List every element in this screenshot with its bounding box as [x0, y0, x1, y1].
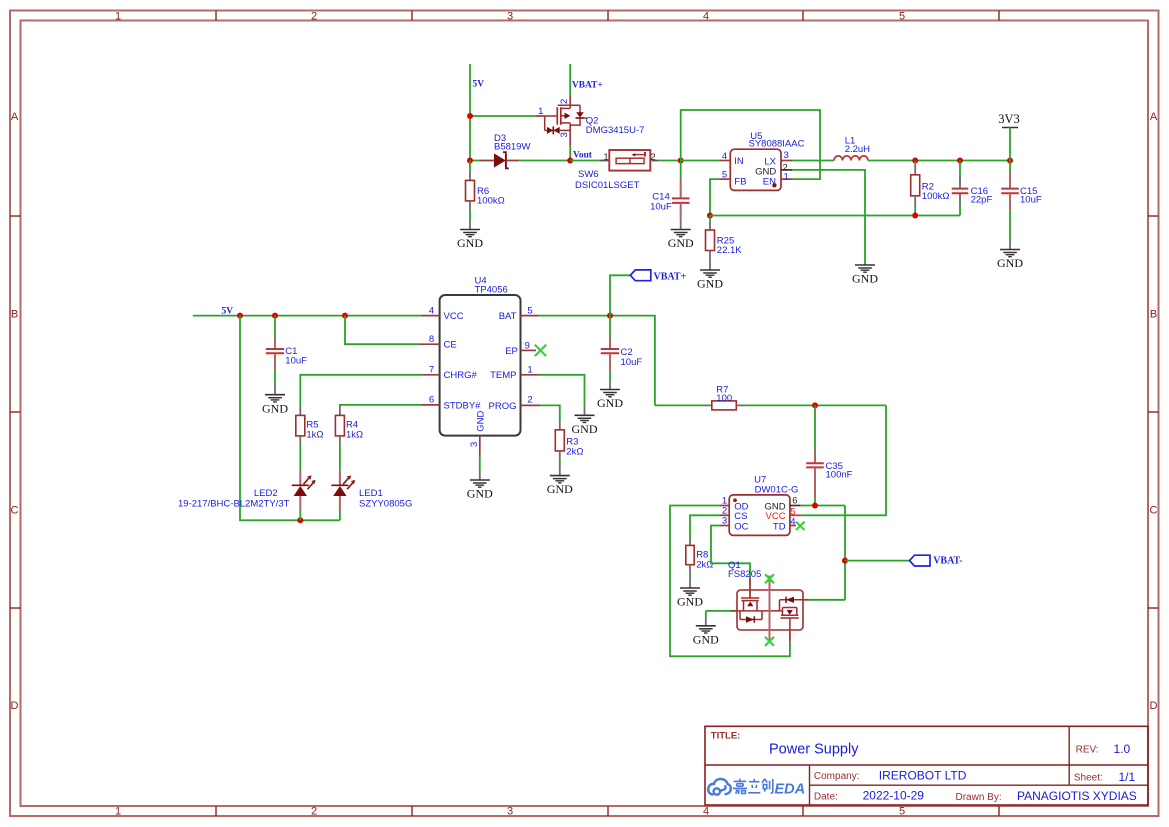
wire VBAT+ vertical [569, 64, 571, 95]
resistor R2 [914, 161, 916, 165]
capacitor C2 [609, 316, 611, 337]
node LED rail junction [237, 313, 243, 319]
node 5V/gate junction [467, 113, 473, 119]
no-connect Q1 top [765, 574, 774, 583]
node C1 junction [272, 313, 278, 319]
svg-text:2: 2 [650, 152, 655, 163]
wire C35 bottom [814, 497, 816, 506]
svg-text:2.2uH: 2.2uH [845, 144, 870, 155]
svg-text:8: 8 [429, 334, 434, 345]
svg-text:1: 1 [538, 106, 543, 117]
wire Q1 left source [706, 610, 731, 612]
svg-text:10uF: 10uF [1020, 195, 1042, 206]
svg-text:DSIC01LSGET: DSIC01LSGET [575, 180, 640, 191]
svg-text:C: C [11, 505, 19, 517]
svg-text:Power Supply: Power Supply [769, 742, 859, 758]
svg-text:EP: EP [505, 346, 518, 357]
svg-text:SZYY0805G: SZYY0805G [359, 499, 412, 510]
wire PROG [540, 405, 560, 420]
svg-text:GND: GND [467, 487, 493, 501]
svg-text:A: A [11, 111, 19, 123]
svg-text:3: 3 [507, 11, 513, 23]
wire CHRG# [300, 375, 421, 407]
net flag VBAT- [910, 555, 931, 566]
op-amp U7 DW01C-G [720, 495, 801, 536]
wire R6 top [469, 161, 471, 171]
node FB/R25 junction [707, 213, 713, 219]
net flag VBAT+ [630, 270, 651, 281]
wire CS [690, 515, 720, 539]
wire VBAT+ flag stub [610, 275, 630, 315]
wire C15 bottom [1009, 210, 1011, 242]
svg-text:D: D [11, 700, 19, 712]
svg-text:3: 3 [722, 515, 727, 526]
svg-text:100kΩ: 100kΩ [922, 191, 950, 202]
node VBAT- junction [842, 558, 848, 564]
svg-text:TP4056: TP4056 [475, 285, 508, 296]
wire R3 bottom [559, 460, 561, 466]
no-connect TD [796, 522, 804, 530]
wire SW6 to node [659, 160, 681, 162]
svg-text:BAT: BAT [499, 311, 517, 322]
wire CE [345, 316, 420, 345]
svg-text:GND: GND [852, 272, 878, 286]
wire EN loop [681, 110, 820, 179]
node VBAT junction [607, 313, 613, 319]
capacitor C15 [1009, 161, 1011, 171]
node C35 bottom junction [812, 503, 818, 509]
svg-text:1kΩ: 1kΩ [306, 430, 323, 441]
svg-text:D: D [1150, 700, 1158, 712]
capacitor C1 [274, 316, 276, 337]
wire Vout to SW6 [570, 160, 599, 162]
no-connect EP [535, 345, 546, 356]
wire FB rail [710, 215, 960, 217]
svg-text:VBAT+: VBAT+ [572, 81, 603, 91]
svg-text:4: 4 [722, 151, 727, 162]
svg-text:GND: GND [997, 256, 1023, 270]
LED LED2 [292, 470, 316, 510]
wire LED return vertical [240, 316, 340, 521]
svg-text:5: 5 [722, 169, 727, 180]
svg-text:1kΩ: 1kΩ [346, 430, 363, 441]
svg-text:B: B [1150, 309, 1157, 321]
svg-text:DMG3415U-7: DMG3415U-7 [586, 125, 645, 136]
svg-text:SY8088IAAC: SY8088IAAC [749, 139, 805, 150]
wire U4 GND pin [479, 456, 481, 471]
svg-text:GND: GND [668, 236, 694, 250]
wire C16 bottom leg [959, 206, 961, 216]
svg-text:2kΩ: 2kΩ [566, 447, 583, 458]
wire LED1 bottom [339, 510, 341, 520]
svg-text:CHRG#: CHRG# [444, 370, 478, 381]
svg-text:100: 100 [716, 393, 732, 404]
wire 5V rail [193, 315, 422, 317]
wire Vout segment [519, 160, 570, 162]
transistor Q1 FS8205 [731, 576, 809, 644]
resistor R8 [689, 539, 691, 545]
svg-text:7: 7 [429, 365, 434, 376]
svg-text:10uF: 10uF [285, 356, 307, 367]
ground Q1 [705, 618, 707, 626]
wire R2 bottom [914, 208, 916, 215]
svg-text:19-217/BHC-BL2M2TY/3T: 19-217/BHC-BL2M2TY/3T [178, 499, 290, 510]
resistor R5 [299, 407, 301, 416]
svg-text:GND: GND [547, 482, 573, 496]
svg-text:1: 1 [115, 806, 121, 818]
wire OD loop [670, 506, 790, 657]
svg-text:5V: 5V [473, 80, 485, 90]
inductor L1 [834, 156, 868, 161]
svg-text:Drawn By:: Drawn By: [956, 792, 1002, 803]
svg-text:Company:: Company: [814, 771, 860, 782]
logo JLC EDA [708, 779, 731, 795]
node R2 bottom junction [912, 213, 918, 219]
svg-text:VCC: VCC [444, 311, 464, 322]
node CE junction [342, 313, 348, 319]
svg-text:4: 4 [429, 305, 434, 316]
svg-text:6: 6 [792, 496, 797, 507]
node Vout junction [567, 158, 573, 164]
svg-text:9: 9 [525, 340, 530, 351]
ground R3 [559, 466, 561, 476]
svg-text:3V3: 3V3 [998, 112, 1020, 126]
ground R8 [689, 578, 691, 589]
svg-text:5: 5 [527, 305, 532, 316]
svg-text:REV:: REV: [1076, 745, 1099, 756]
svg-text:GND: GND [697, 277, 723, 291]
svg-text:2: 2 [311, 806, 317, 818]
svg-text:100kΩ: 100kΩ [477, 196, 505, 207]
svg-text:GND: GND [597, 396, 623, 410]
svg-text:PROG: PROG [489, 401, 517, 412]
svg-text:GND: GND [457, 236, 483, 250]
node D3/R6 junction [467, 158, 473, 164]
svg-text:4: 4 [703, 806, 709, 818]
switch SW6 [599, 150, 659, 171]
svg-text:3: 3 [469, 442, 480, 447]
wire GND6/C35 rail [801, 505, 845, 507]
svg-text:STDBY#: STDBY# [444, 400, 482, 411]
ground C14 [680, 220, 682, 230]
ground C1 [274, 370, 276, 385]
svg-text:Date:: Date: [814, 792, 838, 803]
wire 3V3 stub [1009, 128, 1011, 161]
svg-text:100nF: 100nF [826, 470, 853, 481]
svg-text:EDA: EDA [775, 782, 806, 798]
svg-text:1.0: 1.0 [1114, 742, 1131, 756]
resistor R3 [559, 420, 561, 429]
svg-text:LED1: LED1 [359, 488, 383, 499]
svg-text:Vout: Vout [573, 151, 593, 161]
svg-text:B5819W: B5819W [494, 142, 530, 153]
wire 3V3 rail [868, 160, 1010, 162]
no-connect Q1 bottom [765, 637, 774, 646]
wire VCC drop [801, 405, 886, 515]
wire R4 to LED1 [339, 445, 341, 471]
svg-text:TITLE:: TITLE: [711, 730, 741, 741]
svg-text:1: 1 [115, 11, 121, 23]
wire VBAT- flag stub [845, 560, 910, 562]
svg-text:5: 5 [899, 11, 905, 23]
ground R6 [469, 221, 471, 230]
svg-text:1: 1 [527, 365, 532, 376]
svg-text:22.1K: 22.1K [717, 245, 742, 256]
wire BAT rail [539, 316, 655, 406]
svg-text:3: 3 [784, 150, 789, 161]
svg-text:IN: IN [734, 156, 744, 167]
resistor R25 [709, 216, 711, 221]
node C14/IN junction [678, 158, 684, 164]
svg-text:FB: FB [734, 176, 746, 187]
wire STDBY# [340, 405, 422, 406]
wire node to U5 IN [681, 160, 720, 162]
diode D3 [480, 152, 519, 168]
svg-text:OC: OC [734, 521, 748, 532]
svg-text:DW01C-G: DW01C-G [755, 484, 799, 495]
node LED2 bottom junction [297, 517, 303, 523]
svg-text:2: 2 [527, 395, 532, 406]
svg-text:5: 5 [899, 806, 905, 818]
wire FB [710, 179, 720, 215]
wire VBAT- vertical [844, 506, 846, 600]
wire TEMP [539, 375, 585, 405]
ground R25 [709, 262, 711, 270]
wire Q2 drain to Vout [569, 145, 571, 161]
svg-text:B: B [11, 309, 18, 321]
svg-text:C: C [1150, 505, 1158, 517]
wire R5 to LED2 [299, 445, 301, 471]
title block [705, 726, 1148, 805]
svg-text:SW6: SW6 [578, 169, 599, 180]
svg-text:GND: GND [677, 595, 703, 609]
svg-text:A: A [1150, 111, 1158, 123]
svg-text:3: 3 [507, 806, 513, 818]
svg-text:VBAT+: VBAT+ [654, 272, 687, 283]
wire gate feed [470, 115, 536, 117]
svg-text:TD: TD [773, 521, 786, 532]
svg-text:GND: GND [262, 401, 288, 415]
resistor R6 [466, 171, 475, 211]
svg-text:6: 6 [429, 395, 434, 406]
svg-text:VBAT-: VBAT- [933, 555, 962, 566]
wire OC [711, 526, 750, 579]
transistor Q2 [536, 95, 588, 145]
capacitor C14 [680, 161, 682, 181]
wire R7 to C35 [744, 404, 886, 406]
svg-text:1: 1 [784, 171, 789, 182]
wire Q1 right to VBAT- [809, 599, 845, 601]
svg-text:1: 1 [603, 152, 608, 163]
svg-text:10uF: 10uF [621, 357, 643, 368]
LED LED1 [331, 470, 355, 510]
ground C15 [1009, 242, 1011, 250]
wire R8 bottom [689, 574, 691, 578]
resistor R4 [339, 406, 341, 415]
svg-text:1/1: 1/1 [1119, 770, 1136, 784]
svg-text:TEMP: TEMP [490, 370, 516, 381]
svg-text:4: 4 [790, 516, 795, 527]
svg-text:4: 4 [703, 11, 709, 23]
svg-text:10uF: 10uF [650, 202, 672, 213]
wire 5V vertical [469, 64, 471, 161]
svg-text:2022-10-29: 2022-10-29 [863, 789, 925, 803]
op-amp U4 TP4056 [420, 295, 541, 456]
ground C2 [609, 370, 611, 382]
op-amp U5 SY8088IAAC [720, 149, 793, 190]
wire R6 bottom [469, 211, 471, 221]
wire LX out [792, 160, 834, 162]
svg-text:LED2: LED2 [254, 488, 278, 499]
capacitor C16 [959, 161, 961, 176]
ground TEMP [584, 404, 586, 415]
ground U4 [479, 471, 481, 481]
svg-text:GND: GND [693, 632, 719, 646]
svg-text:Sheet:: Sheet: [1074, 773, 1103, 784]
node C35 top junction [812, 402, 818, 408]
resistor R7 [655, 404, 705, 406]
capacitor C35 [814, 405, 816, 450]
svg-text:2: 2 [311, 11, 317, 23]
node R2 top [912, 158, 918, 164]
svg-text:CE: CE [444, 340, 457, 351]
svg-text:22pF: 22pF [971, 194, 993, 205]
svg-text:IREROBOT LTD: IREROBOT LTD [879, 768, 967, 782]
svg-text:GND: GND [475, 410, 486, 431]
svg-text:3: 3 [559, 132, 570, 137]
wire LED2 bottom [299, 510, 301, 520]
svg-text:PANAGIOTIS XYDIAS: PANAGIOTIS XYDIAS [1017, 789, 1137, 803]
node C15 top [1007, 158, 1013, 164]
svg-text:2: 2 [559, 99, 570, 104]
wire D3 anode [470, 160, 480, 162]
svg-text:FS8205: FS8205 [728, 569, 761, 580]
ground U5 [855, 264, 875, 266]
wire U5 GND to ground [792, 170, 865, 265]
svg-text:GND: GND [572, 422, 598, 436]
node C16 top [957, 158, 963, 164]
